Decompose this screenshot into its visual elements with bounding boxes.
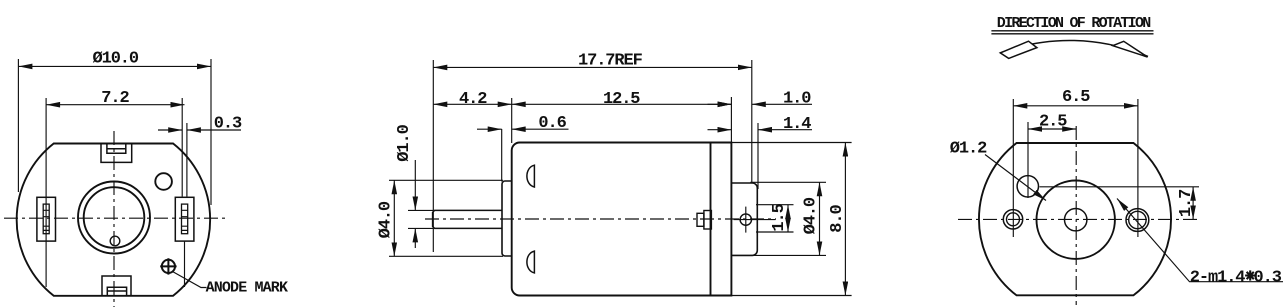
svg-text:Ø4.0: Ø4.0 bbox=[801, 197, 820, 234]
svg-text:Ø1.0: Ø1.0 bbox=[395, 124, 414, 161]
svg-text:7.2: 7.2 bbox=[101, 89, 129, 108]
svg-text:8.0: 8.0 bbox=[828, 205, 847, 233]
svg-text:0.6: 0.6 bbox=[538, 114, 566, 133]
svg-text:Ø1.2: Ø1.2 bbox=[950, 140, 987, 159]
svg-text:4.2: 4.2 bbox=[459, 90, 487, 109]
svg-text:1.4: 1.4 bbox=[783, 115, 811, 134]
svg-text:2-m1.4 0.3: 2-m1.4 0.3 bbox=[1190, 269, 1282, 288]
svg-text:12.5: 12.5 bbox=[603, 90, 640, 109]
svg-text:ANODE MARK: ANODE MARK bbox=[206, 280, 288, 297]
svg-text:0.3: 0.3 bbox=[214, 115, 242, 134]
svg-text:DIRECTION OF ROTATION: DIRECTION OF ROTATION bbox=[997, 15, 1151, 32]
svg-text:2.5: 2.5 bbox=[1039, 113, 1067, 132]
svg-text:Ø10.0: Ø10.0 bbox=[93, 50, 139, 69]
svg-text:1.7: 1.7 bbox=[1177, 189, 1196, 217]
svg-text:Ø4.0: Ø4.0 bbox=[377, 201, 396, 238]
svg-text:6.5: 6.5 bbox=[1062, 88, 1090, 107]
svg-text:17.7REF: 17.7REF bbox=[578, 52, 643, 71]
svg-text:1.5: 1.5 bbox=[770, 203, 789, 231]
svg-text:1.0: 1.0 bbox=[783, 90, 811, 109]
